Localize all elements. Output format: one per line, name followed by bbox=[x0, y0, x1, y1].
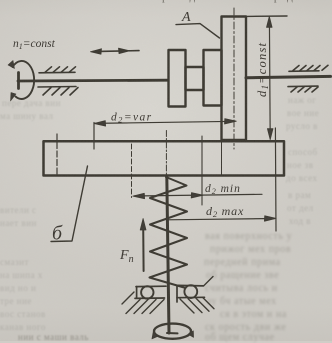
right shaft bbox=[246, 76, 331, 77]
svg-text:n1=const: n1=const bbox=[13, 38, 56, 51]
B underline and leader bbox=[51, 166, 88, 242]
bar B body bbox=[44, 141, 285, 175]
svg-text:d2 min: d2 min bbox=[205, 183, 241, 196]
centerline x166 in bar bbox=[165, 131, 167, 177]
svg-text:A: A bbox=[181, 10, 191, 25]
hub left flange bbox=[169, 50, 186, 107]
axial double arrow bbox=[91, 48, 140, 54]
right guide bearing bbox=[177, 285, 205, 302]
disc top extension line bbox=[246, 15, 287, 17]
extension x275.7 bbox=[274, 128, 277, 231]
right bearing hatching bbox=[180, 277, 214, 314]
left bearing support bottom bbox=[38, 87, 78, 96]
vertical shaft bbox=[167, 176, 169, 333]
svg-text:Fn: Fn bbox=[119, 248, 134, 265]
right bearing support top bbox=[289, 65, 328, 71]
disc A bbox=[222, 17, 247, 141]
spring bbox=[150, 177, 188, 288]
left guide bearing bbox=[135, 286, 166, 298]
hub middle block bbox=[186, 67, 204, 90]
svg-text:d2 max: d2 max bbox=[206, 204, 244, 219]
disc edge tick through bar bbox=[221, 141, 223, 175]
d2 min dimension bbox=[133, 193, 262, 199]
left bearing support top bbox=[39, 67, 76, 73]
Fn arrow bbox=[142, 226, 144, 271]
right bearing support bottom bbox=[288, 86, 318, 92]
d1 dimension line bbox=[267, 16, 274, 139]
d2=var dimension bbox=[94, 119, 237, 149]
shaft end cap bbox=[17, 73, 20, 89]
handwheel hub tick bbox=[167, 332, 178, 334]
disc centerline bbox=[233, 8, 235, 149]
extension x202 bbox=[201, 136, 203, 205]
rotation arrow right bbox=[188, 331, 193, 337]
rotation arrow ellipse bbox=[13, 61, 35, 99]
paper grain bbox=[0, 0, 1, 1]
tick x57 through bar bbox=[56, 134, 58, 175]
rotation arrow left bbox=[152, 332, 158, 339]
svg-text:d2=vаr: d2=vаr bbox=[111, 112, 153, 125]
dashed extension x131 bbox=[131, 144, 133, 198]
leader A bbox=[176, 24, 220, 38]
handwheel bbox=[154, 324, 191, 339]
svg-text:d1=const: d1=const bbox=[255, 42, 270, 97]
d2 max dimension bbox=[167, 216, 276, 221]
faint bleed-through text background bbox=[57, 0, 317, 3]
hub right flange bbox=[204, 50, 222, 106]
left bearing hatching bbox=[122, 292, 164, 314]
left shaft bbox=[18, 79, 168, 83]
